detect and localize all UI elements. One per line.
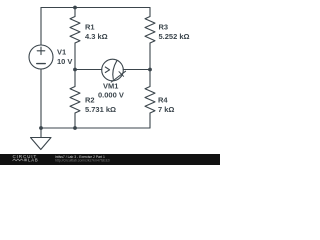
svg-text:http://circuitlab.com/c/ks7krr: http://circuitlab.com/c/ks7krr47fsb32/ bbox=[55, 159, 110, 163]
voltage source V1 bbox=[29, 45, 53, 69]
svg-text:5.731 kΩ: 5.731 kΩ bbox=[85, 105, 116, 114]
svg-text:R2: R2 bbox=[85, 96, 95, 105]
svg-text:5.252 kΩ: 5.252 kΩ bbox=[159, 32, 190, 41]
svg-text:VM1: VM1 bbox=[103, 81, 118, 90]
resistor R3 bbox=[145, 17, 155, 44]
wire R3 to node bbox=[149, 43, 151, 70]
watermark bar bbox=[0, 154, 220, 165]
wire right node to R4 bbox=[149, 70, 151, 87]
svg-text:LAB: LAB bbox=[28, 158, 38, 163]
node E: bottom middle junction bbox=[73, 126, 77, 130]
svg-text:0.000 V: 0.000 V bbox=[98, 91, 124, 100]
svg-text:7 kΩ: 7 kΩ bbox=[158, 105, 174, 114]
wire node to voltmeter bbox=[75, 69, 102, 71]
resistor R1 bbox=[70, 17, 80, 44]
wire voltmeter to right node bbox=[123, 69, 150, 71]
svg-text:R3: R3 bbox=[159, 22, 169, 31]
voltmeter VM1 bbox=[102, 59, 124, 81]
node D: ground junction bbox=[39, 126, 43, 130]
wire R4 to bottom rail bbox=[149, 113, 151, 128]
wire node to R2 bbox=[74, 70, 76, 87]
resistor R4 bbox=[145, 87, 155, 114]
wire R1 to node bbox=[74, 43, 76, 70]
svg-text:V1: V1 bbox=[57, 47, 66, 56]
wire left branch top (rail to V1) bbox=[40, 8, 42, 46]
wire R2 to bottom rail bbox=[74, 113, 76, 128]
wire top rail bbox=[41, 7, 150, 9]
svg-text:4.3 kΩ: 4.3 kΩ bbox=[85, 32, 108, 41]
node B: left bridge node bbox=[73, 68, 77, 72]
svg-text:R4: R4 bbox=[158, 96, 168, 105]
wire left branch bottom (V1 to bottom rail) bbox=[40, 69, 42, 128]
svg-text:R1: R1 bbox=[85, 22, 95, 31]
svg-text:10 V: 10 V bbox=[57, 57, 72, 66]
node C: right bridge node bbox=[148, 68, 152, 72]
wire ground stub bbox=[40, 128, 42, 138]
wire bottom rail bbox=[41, 127, 150, 129]
resistor R2 bbox=[70, 87, 80, 114]
wire middle branch top bbox=[74, 8, 76, 17]
ground bbox=[31, 138, 52, 150]
wire right branch top bbox=[149, 8, 151, 17]
node A: top junction bbox=[73, 6, 77, 10]
